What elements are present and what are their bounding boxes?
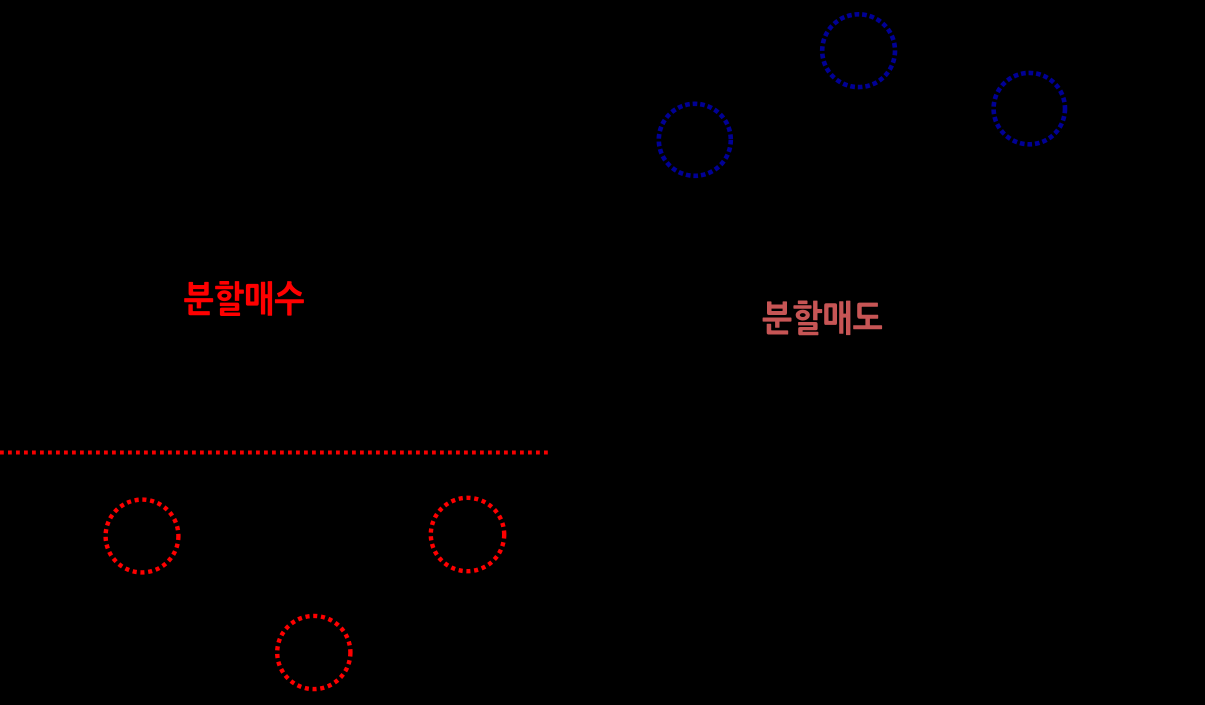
blue dotted circle B2 (822, 14, 895, 87)
blue dotted circle B3 (994, 73, 1065, 144)
red dotted circle R3 (277, 616, 350, 689)
red dotted circle R1 (106, 500, 179, 573)
blue dotted circle B1 (659, 104, 731, 176)
label 분할매수 (split buy) (184, 281, 304, 316)
red dotted circle R2 (431, 498, 504, 571)
red dotted horizontal line (0, 451, 548, 455)
label 분할매도 (split sell) (763, 301, 883, 336)
